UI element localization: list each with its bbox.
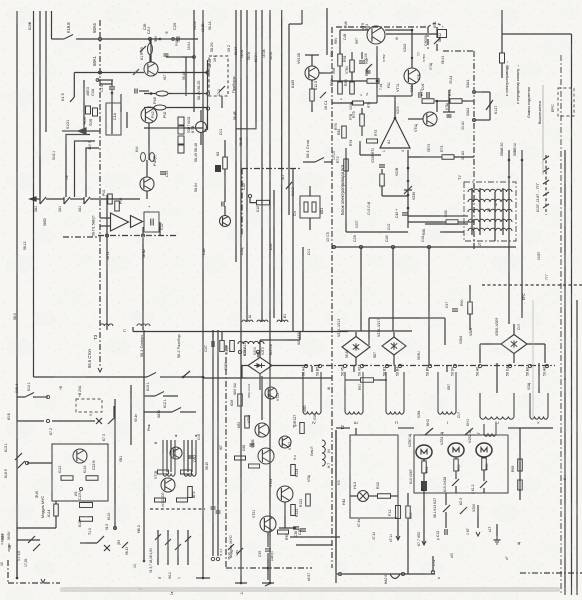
node C30: [248, 194, 251, 197]
transformer T1 winding 3: [468, 209, 512, 212]
switch K2.3: [460, 507, 467, 514]
switch 56.2 Razobor: [183, 371, 190, 377]
resistor R123: [306, 494, 311, 506]
panel hl box: [350, 435, 398, 518]
op-amp U1: [380, 118, 410, 148]
fuse F12: [396, 506, 401, 519]
resistor R63: [406, 506, 411, 518]
transistor VT10: [423, 112, 437, 126]
switch 13.1: [219, 86, 225, 92]
resistor R77: [422, 99, 434, 104]
resistor mus3: [235, 456, 246, 460]
wire mid drop 1: [106, 238, 108, 330]
wire 5842: [436, 27, 438, 38]
transistor VT24: [258, 448, 274, 464]
node k12 switch: [320, 92, 326, 98]
wire left bus 3: [39, 11, 41, 197]
node 58.В5: [318, 364, 321, 367]
capacitor C12: [444, 529, 446, 535]
wire row 58A1: [74, 72, 144, 74]
connector X1: [96, 418, 102, 424]
wire bus x236: [235, 10, 237, 262]
transformer Tr winding IV: [303, 372, 321, 414]
resistor R118: [86, 476, 98, 481]
wire bus x207: [207, 60, 209, 130]
wire drop C41: [428, 247, 430, 366]
component box Sp: [300, 196, 320, 218]
transformer T1 winding 1: [468, 189, 512, 192]
wire vt9 leads: [340, 29, 369, 31]
node 58.В4: [398, 364, 401, 367]
resistor R114: [54, 504, 59, 516]
op-amp U2: [111, 213, 129, 231]
switch K15.3: [452, 479, 459, 486]
wire bus x262: [261, 10, 263, 322]
coil mus right: [322, 440, 325, 466]
node i3: [79, 487, 82, 490]
resistor mus2: [245, 416, 250, 428]
wire left bus 2: [33, 11, 35, 377]
wire top right drop: [501, 10, 503, 34]
indicator lamp V252: [476, 443, 492, 457]
module1 box: [52, 444, 108, 501]
wire v9105 link: [319, 72, 332, 74]
ground right: [496, 536, 498, 540]
switch T1.3: [97, 536, 104, 543]
transistor V9105: [305, 66, 319, 80]
resistor R83: [367, 79, 379, 84]
capacitor C45: [426, 92, 428, 98]
block amplifier border right: [473, 51, 475, 250]
wire V17 stub: [150, 39, 152, 62]
switch row arrow: [30, 197, 36, 201]
resistor R42b: [378, 494, 391, 499]
wire bottom right dashdot: [520, 572, 582, 574]
component small boxes: [86, 106, 91, 114]
node 58A1b: [96, 79, 99, 82]
transistor VT21: [265, 387, 277, 399]
wire bus x270: [269, 10, 271, 583]
transistor V9Ch: [141, 107, 157, 123]
capacitor mus top: [211, 506, 216, 508]
wire rows to T1: [408, 215, 468, 217]
wire right bus d: [576, 300, 578, 595]
wire mus links: [267, 532, 269, 547]
wire bus y366: [302, 365, 555, 367]
wire top right run: [502, 33, 572, 35]
capacitor C48b: [134, 89, 136, 94]
resistor R42: [154, 105, 166, 110]
component C104: [80, 503, 93, 508]
connector X2: [104, 545, 110, 551]
resistor R112: [61, 476, 73, 481]
wire bus x289: [288, 24, 290, 215]
scan artifact smudge: [60, 587, 560, 592]
node 58.А4: [304, 364, 307, 367]
component right col: [518, 459, 523, 471]
wire opamp out: [142, 227, 144, 236]
node C41: [427, 245, 430, 248]
resistor R119: [188, 487, 193, 498]
switch K19.4: [25, 393, 34, 398]
node 58BB: [521, 159, 524, 162]
wire opamp base: [360, 154, 381, 156]
resistor R90: [338, 82, 343, 94]
wire row y57: [166, 56, 194, 58]
component K50: [141, 153, 146, 162]
capacitor C66: [250, 443, 255, 445]
wire bus x203: [202, 10, 204, 578]
resistor row m2b: [155, 498, 166, 502]
switch row m2: [155, 534, 161, 540]
resistor R88: [446, 220, 458, 225]
module MUS border: [225, 345, 227, 568]
wire mus right rows: [290, 536, 340, 538]
resistor R78: [450, 99, 462, 104]
capacitor C43b: [418, 92, 420, 98]
instrument box Pribory: [209, 56, 228, 96]
wire vt11 leads: [411, 30, 413, 68]
resistor R133: [220, 341, 225, 352]
wire left bus 1: [16, 11, 18, 578]
node y377: [202, 376, 205, 379]
switch K1.2: [480, 481, 487, 488]
switch 3A3: [84, 197, 90, 204]
wire bus x241: [240, 10, 242, 583]
wire amp rows: [332, 80, 367, 82]
switch K17.3: [108, 417, 115, 424]
transformer Tr winding П: [386, 372, 404, 414]
wire bottom of upper module: [63, 236, 98, 238]
resistor R65: [454, 459, 459, 471]
wire bend 2: [75, 141, 96, 152]
wire r77 row: [435, 100, 450, 102]
transformer tails mid: [242, 320, 253, 322]
transistor VT25: [277, 486, 293, 502]
transistor VT30: [73, 449, 87, 463]
wire bend 3: [86, 148, 99, 197]
node 58.Б0: [528, 364, 531, 367]
resistor P42: [115, 201, 120, 211]
switch 58.1 Stop: [315, 158, 324, 163]
node bottom x144: [143, 560, 146, 563]
wire left bus 5: [51, 11, 53, 39]
switch K12.1b: [172, 408, 181, 413]
resistor R90b: [278, 530, 289, 534]
wire module1 col3: [143, 330, 145, 561]
wire dashdot row y235: [98, 235, 178, 237]
wire dashed row: [482, 284, 582, 286]
node bottom x203: [202, 577, 205, 580]
node 58AB: [508, 159, 511, 162]
resistor R76: [342, 126, 347, 138]
transformer tail A: [100, 324, 113, 326]
wire bend 4: [39, 155, 41, 197]
node 58.А0: [478, 364, 481, 367]
indicator lamp V251: [448, 443, 464, 457]
block amplifier border top: [336, 26, 428, 28]
switch K19.8: [64, 35, 73, 40]
dashed relay box: [76, 399, 102, 412]
motor M1: [196, 122, 207, 133]
transformer Tr winding Ш: [345, 372, 363, 414]
resistor R60: [468, 302, 473, 314]
resistor R116: [80, 517, 93, 522]
component ERS dashed: [558, 88, 574, 116]
node x336 bottom: [338, 572, 341, 575]
switch K127: [474, 91, 490, 93]
scan artifact vline2: [532, 300, 534, 420]
node row1: [46, 395, 49, 398]
wire module1 col: [114, 399, 116, 530]
scan artifact vline: [542, 85, 544, 175]
switch 3A1: [40, 197, 46, 204]
switch KN1: [465, 428, 473, 435]
switch K13.1: [15, 453, 22, 460]
wire T1 vertical taps: [471, 188, 473, 235]
transformer T1 winding 4: [468, 219, 512, 222]
wire dashdot bottom left: [8, 582, 60, 584]
resistor R70: [380, 174, 385, 186]
switch bottom m1a: [28, 536, 35, 543]
capacitor C14: [109, 86, 115, 88]
coil L2a: [163, 440, 175, 476]
node 58A1: [98, 71, 101, 74]
wire top row: [52, 38, 65, 40]
wire v84: [83, 80, 85, 134]
wire tlc extra: [120, 94, 122, 112]
wire left bus 4: [45, 11, 47, 132]
wire m2 node row: [150, 508, 205, 510]
capacitor C38: [293, 526, 299, 528]
contact chain K137: [545, 155, 547, 215]
resistor R94: [338, 54, 343, 66]
component box C32: [144, 212, 159, 232]
transformer T2 coil: [484, 424, 496, 436]
wire bridge4 arms: [480, 343, 501, 345]
capacitor C25: [172, 38, 175, 41]
component box C1A: [106, 103, 121, 135]
node C29: [359, 245, 362, 248]
wire drop C40: [392, 247, 394, 331]
resistor R127: [300, 423, 305, 434]
wire bus x281: [281, 10, 283, 322]
transistor VT32: [161, 478, 175, 492]
resistor R48: [156, 91, 168, 96]
switch 56.1 Signal: [147, 373, 156, 378]
node 58.84: [453, 364, 456, 367]
wire vt10: [408, 118, 423, 120]
node 58.ВЧ: [428, 364, 431, 367]
transistor P42b: [220, 216, 231, 227]
node bottom x17: [16, 577, 19, 580]
transistor VT11: [404, 68, 420, 84]
wire vt10 extra: [448, 90, 450, 112]
resistor R73: [367, 139, 378, 143]
component box col: [178, 117, 184, 125]
wire stub: [73, 73, 75, 98]
switch K1.5: [70, 97, 74, 102]
node mus bottom: [267, 567, 270, 570]
wire mid drop 2: [142, 238, 144, 330]
block T1 border: [464, 182, 516, 241]
wire t2 col: [355, 428, 357, 435]
transistor VT31: [170, 447, 182, 459]
wire block bottom bus: [332, 246, 516, 248]
wire winding drops: [311, 366, 313, 372]
wire vd1 stubs: [259, 374, 261, 390]
indicator lamp V250: [416, 445, 432, 459]
node 58.45: [343, 364, 346, 367]
wire m1 bottom rows: [17, 527, 56, 529]
capacitor C47: [452, 308, 458, 310]
wire mus cols: [212, 330, 214, 556]
bridge rectifier VD3: [382, 337, 406, 355]
transistor VT22: [255, 423, 269, 437]
component row boxes: [230, 341, 235, 352]
capacitor V239: [379, 164, 385, 166]
panel top link: [398, 427, 414, 429]
resistor R75: [360, 114, 365, 126]
wire right col a: [519, 428, 521, 500]
transformer T1 winding 2: [468, 199, 512, 202]
wire T1 bus x522: [521, 150, 523, 318]
transistor VT26: [260, 516, 276, 532]
resistor mus1: [238, 394, 243, 406]
wire drop mid a: [302, 247, 304, 332]
wire row 421: [17, 420, 44, 422]
node 58.А6: [545, 364, 548, 367]
resistor K10: [257, 200, 270, 205]
wire T1 bus x509: [508, 150, 510, 324]
transistor V19: [140, 177, 154, 191]
transformer Tr winding I: [438, 372, 456, 414]
wire sp leads: [309, 186, 311, 196]
wire f12 down: [397, 518, 399, 540]
resistor R49: [148, 44, 153, 55]
node 13C5: [332, 245, 335, 248]
node chain x408: [407, 150, 409, 228]
wire opamp inputs: [100, 217, 111, 219]
node 58A7: [206, 71, 209, 74]
capacitor C64: [189, 455, 194, 457]
resistor R86: [350, 82, 355, 94]
transformer Tr winding III right: [480, 393, 514, 419]
resistor R122: [291, 505, 296, 516]
transistor VT23: [279, 436, 291, 448]
op-amp U2b: [131, 216, 143, 228]
wire bend 1: [66, 135, 90, 198]
coil L2b: [184, 440, 196, 476]
wire under panel: [423, 518, 425, 545]
diode pair amp: [366, 64, 372, 70]
wire inner rail: [345, 148, 347, 232]
module dashdot mid: [242, 168, 300, 170]
resistor R105: [310, 89, 315, 101]
wire m1 stub: [200, 110, 202, 122]
wire x336 col: [335, 430, 337, 583]
wire module boundary T3 dash-dot: [99, 20, 101, 368]
wire k9 link: [224, 140, 226, 157]
block amplifier border left: [331, 27, 333, 420]
node 58.СА: [508, 364, 511, 367]
wire bus x253: [236, 10, 256, 129]
wire long x241 bottom node: [240, 582, 243, 585]
component row C37: [211, 341, 213, 347]
node 58.ВЗ: [385, 364, 388, 367]
switch K10.3: [286, 182, 292, 189]
resistor K9: [223, 157, 228, 169]
wire bridge stubs: [355, 332, 357, 337]
wire bus x194: [193, 10, 195, 112]
switch KN2: [425, 428, 433, 435]
resistor row m2: [158, 470, 169, 474]
wire module1 col2: [130, 385, 132, 445]
resistor R124: [291, 465, 296, 476]
capacitor C55: [265, 548, 271, 550]
wire bus x247: [246, 10, 248, 322]
wire mus col3: [261, 376, 263, 420]
node 58A5: [98, 37, 101, 40]
transistor V17: [144, 62, 158, 76]
wire right edge bus: [571, 34, 573, 595]
node 58.43: [360, 364, 363, 367]
wire right bus c: [560, 55, 562, 595]
wire long x270 bottom node: [269, 582, 272, 585]
resistor R71: [442, 155, 454, 160]
switch K15.1: [155, 392, 164, 397]
wire top right link: [289, 23, 302, 25]
wire v19 leads: [146, 160, 148, 177]
wire drop C29: [360, 247, 362, 331]
wire drop mid b: [292, 169, 294, 333]
resistor R67: [361, 378, 374, 383]
bridge rectifier VD1: [248, 357, 272, 373]
wire bridge tops: [340, 330, 412, 332]
switch K13 K27: [443, 505, 450, 512]
capacitor C42: [402, 212, 408, 214]
wire m2 cols: [157, 530, 159, 565]
panel lamp box: [414, 435, 508, 493]
resistor R64: [422, 461, 427, 473]
wire right bus b: [564, 150, 566, 595]
resistor R66: [482, 458, 487, 470]
capacitor mid: [221, 202, 223, 207]
transformer T1 winding 5: [468, 228, 512, 231]
wire bus y377: [34, 376, 148, 378]
resistor K42 fuse: [438, 30, 447, 38]
switch 51O1 arrow: [78, 128, 86, 134]
transistor VT9: [367, 26, 385, 44]
resistor P41: [108, 194, 113, 204]
switch 3A2: [64, 197, 70, 204]
resistor R72: [344, 159, 349, 171]
transformer Tr winding V: [530, 393, 548, 419]
capacitor C36: [300, 528, 306, 530]
node T3 arrow: [98, 368, 102, 372]
bridge rectifier VD2: [342, 337, 370, 358]
wire bus y331: [133, 331, 348, 333]
resistor R91: [350, 60, 355, 72]
wire v149: [148, 123, 150, 160]
block amplifier corner: [428, 24, 443, 28]
capacitor C46: [359, 60, 365, 62]
lamp HL3: [358, 491, 369, 502]
capacitor C33: [160, 171, 166, 173]
node C40: [391, 245, 394, 248]
bridge rectifier VD4: [501, 335, 527, 354]
diode V241: [353, 101, 364, 105]
